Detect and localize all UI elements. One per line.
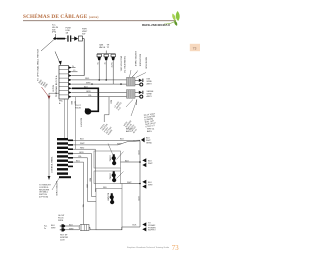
module2 label [147, 91, 154, 98]
junction upper labels [126, 129, 133, 133]
label above valve plugs [99, 44, 110, 49]
strip2 wire r2 to junction1 [73, 141, 140, 145]
box2 plug pair [112, 172, 116, 182]
junction1 wire b label [117, 143, 122, 145]
strip2 wire r6 to igniter [73, 160, 84, 224]
svg-text:(OPTION): (OPTION) [39, 197, 48, 199]
svg-text:120VAC: 120VAC [109, 155, 112, 162]
inter-strip wire labels [70, 101, 76, 106]
trunk wire [139, 141, 141, 228]
trunk label [137, 150, 139, 201]
footer line [127, 246, 170, 249]
box1 rotated label [109, 155, 112, 162]
module1 leader lines [132, 71, 146, 78]
svg-text:AWG: AWG [126, 130, 131, 133]
wire bus to panel [75, 97, 77, 150]
svg-text:YEL: YEL [82, 204, 84, 207]
vertical wire labels [82, 178, 91, 207]
arrow connector [74, 36, 78, 40]
svg-text:BATTERY PACK: BATTERY PACK [55, 181, 58, 197]
svg-text:BLK: BLK [133, 225, 137, 227]
piezo small label [75, 105, 82, 109]
trunk bottom label [148, 223, 156, 232]
igniter connector a [60, 224, 66, 227]
svg-text:WIRE: WIRE [58, 220, 64, 222]
leader wire down-left from top line [41, 39, 55, 51]
box2 rotated label [109, 173, 112, 180]
short stub below module2 [136, 100, 138, 106]
svg-text:BLK: BLK [80, 139, 84, 141]
svg-text:WHT: WHT [148, 184, 153, 186]
bus wire row4 to module1 [72, 78, 127, 80]
wire into terminal row 3 [72, 75, 84, 77]
valve bracket [97, 51, 116, 54]
svg-text:120V: 120V [60, 239, 65, 241]
svg-text:BLU: BLU [76, 160, 80, 162]
wire strip1 to left [49, 92, 59, 94]
valve plug 3 [111, 54, 115, 60]
svg-text:ASSY: ASSY [147, 95, 153, 98]
junction1 wires [120, 139, 140, 141]
junction1 connector [141, 137, 145, 142]
svg-text:SCHÉMAS DE CÂBLAGE (suite): SCHÉMAS DE CÂBLAGE (suite) [23, 12, 99, 20]
svg-text:BLOWER: BLOWER [107, 193, 109, 201]
remote label col [55, 181, 58, 197]
switch box [78, 36, 82, 41]
box3 rotated label [107, 193, 109, 201]
junction upper labels right [147, 129, 155, 133]
svg-text:GRN: GRN [79, 152, 84, 154]
svg-text:SENSE ROD: SENSE ROD [145, 57, 147, 69]
strip2 stubs [68, 140, 73, 166]
TB1 row2 stub [72, 70, 78, 72]
module2 disconnect a [135, 91, 143, 94]
svg-text:(PN): (PN) [52, 32, 56, 34]
wire vertical right side [83, 39, 85, 76]
svg-text:BLK/WHT: BLK/WHT [80, 118, 82, 128]
svg-text:MILLIVOLT GEN.: MILLIVOLT GEN. [120, 56, 122, 72]
boxes right vertical link [121, 168, 123, 189]
inline plug component [67, 35, 71, 41]
svg-text:GRN: GRN [86, 184, 88, 189]
igniter labels below [60, 235, 69, 242]
junction1 label [146, 138, 152, 145]
box2 leader [117, 172, 124, 179]
svg-text:WHT: WHT [117, 143, 122, 145]
TB1 row1 stub [72, 66, 76, 68]
svg-text:BLK: BLK [69, 224, 73, 226]
left label rotated [37, 48, 40, 81]
svg-text:AWG: AWG [147, 130, 152, 133]
svg-text:WHT: WHT [69, 228, 74, 230]
wire row7 to module2 [72, 91, 127, 93]
label text above plug component [66, 28, 72, 35]
model label under leaf [142, 23, 170, 27]
svg-text:120V: 120V [137, 196, 139, 201]
svg-text:BLK: BLK [125, 160, 129, 162]
label text above corner [82, 29, 88, 36]
svg-text:GRND: GRND [146, 142, 152, 144]
wire end arrow [48, 176, 51, 180]
svg-text:ELECTRODE: ELECTRODE [139, 54, 141, 67]
thick wire row6 [72, 87, 99, 112]
svg-text:ASSY: ASSY [147, 82, 153, 85]
junction3 wire [121, 182, 141, 185]
svg-text:BLK: BLK [84, 87, 88, 89]
svg-text:120V: 120V [137, 150, 139, 155]
strip2 wire r1 to junction1 [73, 139, 135, 141]
svg-text:2x: 2x [44, 228, 46, 230]
wire from bus down [104, 97, 111, 122]
svg-text:RED: RED [80, 148, 85, 150]
pilot burner blob [85, 108, 92, 114]
mid text cluster right [123, 118, 140, 134]
strip2 wire r4 [73, 152, 96, 197]
svg-text:IGNITER CABLE: IGNITER CABLE [134, 51, 137, 67]
wire top line [53, 38, 67, 40]
leader arrow to TB1 [55, 52, 62, 66]
valve plug 2 [104, 54, 108, 60]
wire plug3 down [112, 60, 114, 84]
svg-text:WHT: WHT [51, 227, 56, 229]
leaf logo [164, 11, 180, 26]
junction3 connector [142, 180, 146, 189]
long wire down [48, 93, 50, 176]
strip2 leader down-left [52, 178, 59, 190]
label text above junction [52, 25, 58, 34]
svg-text:CONTROL PANEL: CONTROL PANEL [51, 155, 54, 173]
svg-text:BLK: BLK [120, 139, 124, 141]
svg-text:Fireplace Xtrordinair Technica: Fireplace Xtrordinair Technical Training… [127, 246, 170, 249]
mid text cluster LP [113, 100, 125, 112]
strip1 bottom label [59, 101, 64, 105]
svg-text:KNOB: KNOB [75, 107, 81, 109]
strip2 left rotated label [51, 155, 54, 173]
right column text near valve [120, 56, 126, 74]
wire [72, 38, 75, 40]
junction3 label [148, 182, 153, 186]
svg-text:VALVE: VALVE [99, 46, 106, 49]
wire to corner [82, 38, 84, 40]
box1 leaders [108, 144, 124, 160]
module1 label [147, 79, 153, 86]
svg-text:GRN: GRN [86, 91, 91, 93]
far right text cluster [144, 112, 158, 128]
junction2 label [148, 161, 153, 165]
wire row8 to module2 [72, 95, 127, 97]
valve plug 1 [97, 54, 101, 60]
svg-text:120VAC: 120VAC [109, 173, 112, 180]
left label block [39, 79, 50, 89]
pilot label leader [126, 100, 137, 117]
junction2 wire [121, 160, 141, 163]
trunk bottom connector [142, 222, 146, 231]
svg-text:WHT: WHT [148, 163, 153, 165]
box1 plug pair [112, 155, 116, 165]
footer page number [172, 245, 179, 252]
module2 disconnect b [135, 95, 143, 98]
thick wire segment [57, 38, 66, 40]
leaders to module1 [130, 70, 138, 77]
svg-text:SW: SW [82, 33, 85, 35]
small label between boxes [103, 187, 107, 189]
svg-text:RHFE-263/4004FA II: RHFE-263/4004FA II [142, 23, 170, 27]
svg-text:TO OPTIONAL WALL SWITCH: TO OPTIONAL WALL SWITCH [37, 48, 40, 81]
page edge tab [190, 44, 200, 51]
title SCHEMAS DE CABLAGE [23, 12, 99, 20]
wire plug1 down [98, 60, 100, 80]
svg-text:THERMOPILE 750: THERMOPILE 750 [123, 56, 125, 74]
igniter cylinder [79, 225, 89, 231]
svg-text:WHT: WHT [86, 82, 91, 84]
wire [64, 99, 66, 138]
wire [67, 99, 69, 138]
svg-text:73: 73 [172, 245, 179, 252]
igniter wire b [66, 228, 79, 230]
bus wire row5 to module1 [72, 82, 127, 84]
box3 plug pair [110, 194, 114, 204]
junction2 connector [142, 158, 146, 167]
svg-text:TERMINAL BLOCK A: TERMINAL BLOCK A [55, 75, 58, 97]
strip2 wire r5 [73, 156, 96, 201]
svg-text:WHT: WHT [80, 143, 85, 145]
igniter connector b [60, 228, 66, 231]
svg-text:73: 73 [193, 46, 197, 50]
terminal strip TB1 [59, 66, 69, 100]
svg-text:WHT: WHT [127, 182, 132, 184]
junction dots on bus [98, 79, 121, 85]
mid text cluster left [100, 122, 115, 136]
svg-text:BLK: BLK [110, 100, 112, 104]
igniter labels above [58, 215, 64, 222]
TB1 row arrows [69, 66, 72, 98]
module1 disconnect [135, 79, 143, 86]
red arrowhead [48, 96, 51, 100]
junction diamond [53, 34, 56, 40]
header rule [23, 20, 176, 22]
igniter wire a [66, 224, 79, 226]
plug pin labels [96, 62, 112, 68]
igniter output wire [89, 225, 140, 230]
strip1 left rotated label [53, 75, 58, 97]
svg-text:TH/TP: TH/TP [110, 62, 112, 68]
wire plug2 down [105, 60, 107, 80]
red leader [42, 87, 49, 96]
svg-text:16 POS: 16 POS [53, 84, 55, 92]
igniter labels left [51, 225, 56, 229]
svg-text:RED: RED [85, 78, 90, 80]
text cluster right top [134, 51, 147, 69]
svg-text:SUPPLY: SUPPLY [148, 230, 156, 232]
strip2 wire r3 [73, 148, 96, 192]
rotated wire label mid-left [80, 118, 82, 128]
igniter labels far left [44, 226, 48, 230]
remote label block [39, 185, 52, 199]
